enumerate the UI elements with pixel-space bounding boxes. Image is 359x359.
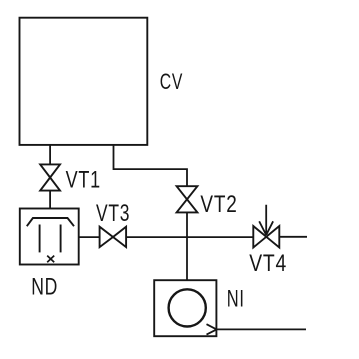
valve VT4 [253, 226, 279, 248]
vessel NI [154, 280, 216, 336]
label VT4 [249, 249, 287, 277]
wire VT2 to NI [186, 212, 188, 280]
vessel ND [20, 209, 79, 265]
label ND [31, 274, 58, 300]
svg-text:CV: CV [160, 71, 183, 95]
vessel CV [20, 18, 148, 145]
ND internal baffle roof [27, 218, 74, 226]
label VT3 [96, 200, 130, 226]
valve VT3 [100, 227, 127, 247]
wire VT3 to VT4 (through junction) [126, 236, 253, 238]
label VT1 [66, 167, 101, 193]
label VT2 [200, 190, 237, 218]
wire VT1 to ND [49, 191, 51, 209]
ND internal electrode right [60, 225, 62, 253]
ND drain cross mark [47, 256, 54, 263]
NI pump circle [169, 289, 206, 326]
wire VT4 to outlet [279, 236, 307, 238]
svg-text:ND: ND [31, 274, 58, 300]
svg-text:VT4: VT4 [249, 249, 287, 277]
svg-text:VT1: VT1 [66, 167, 101, 193]
wire CV to VT2 (step) [114, 145, 188, 186]
wire ND to VT3 [79, 236, 100, 238]
label CV [160, 71, 183, 95]
valve VT2 [177, 186, 198, 212]
wire CV to VT1 [49, 145, 51, 165]
wire NI outlet [216, 328, 306, 330]
VT4 actuator arrow [259, 205, 273, 235]
svg-text:NI: NI [227, 285, 245, 312]
NI outlet arrowhead [207, 324, 217, 334]
ND internal electrode left [39, 225, 41, 253]
valve VT1 [40, 164, 60, 190]
svg-text:VT2: VT2 [200, 190, 237, 218]
svg-text:VT3: VT3 [96, 200, 130, 226]
label NI [227, 285, 245, 312]
